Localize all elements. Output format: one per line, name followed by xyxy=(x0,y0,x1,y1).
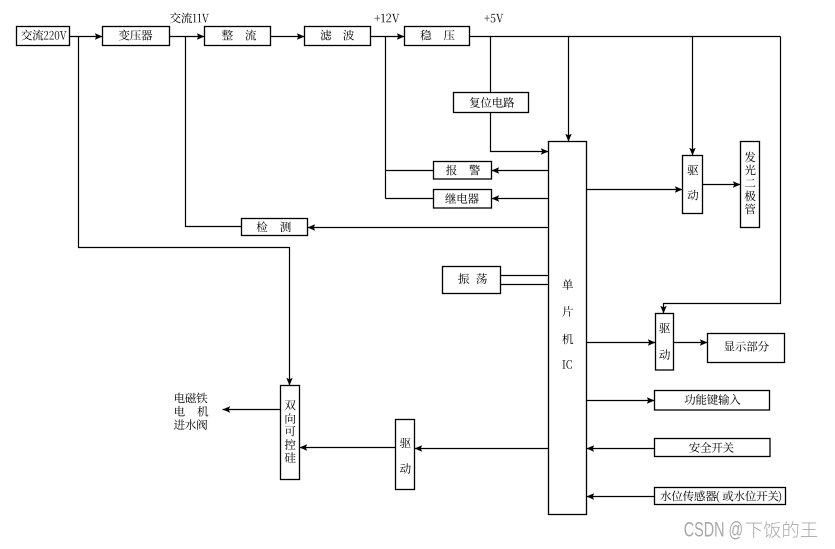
block driver2 驱动 (display) xyxy=(656,314,674,371)
text triac 控 xyxy=(285,439,296,450)
block oscillator 振荡 xyxy=(443,267,501,294)
text driver3 动 xyxy=(400,463,411,474)
wire AC11V branch down to detect xyxy=(186,37,242,227)
text MCU 片 xyxy=(562,306,573,317)
block triac 双向可控硅 xyxy=(281,386,300,480)
wire +5V down to driver1 top xyxy=(692,37,694,156)
text driver3 驱 xyxy=(400,438,411,448)
arrowhead into LED xyxy=(733,181,741,187)
wire driver3 to triac xyxy=(300,447,396,449)
wire rectifier to filter xyxy=(271,36,305,38)
text triac 硅 xyxy=(285,452,296,462)
text 报警 xyxy=(446,165,457,176)
label 电磁铁 xyxy=(175,393,185,403)
block rectifier 整流 xyxy=(205,27,271,46)
arrowhead into rectifier xyxy=(197,33,205,39)
block filter 滤波 xyxy=(305,27,371,46)
text 稳压 xyxy=(420,30,431,41)
text 交流 of AC220V box xyxy=(21,30,32,41)
arrowhead into detect xyxy=(308,224,316,230)
wire oscillator line 2 xyxy=(501,284,549,286)
arrowhead into alarm xyxy=(492,167,500,173)
block driver1 驱动 (top right) xyxy=(683,156,703,214)
wire +5V right edge down to driver2 top xyxy=(664,37,781,314)
wire +5V bus right of regulator xyxy=(470,36,781,38)
text LED 管 xyxy=(745,204,756,215)
arrowhead into display xyxy=(700,339,708,345)
text MCU IC xyxy=(563,360,566,368)
wire MCU to alarm xyxy=(492,170,549,172)
wire +12V to relay left xyxy=(386,198,434,200)
arrowhead into driver3 xyxy=(415,445,423,451)
block alarm 报警 xyxy=(434,162,492,180)
label 11V xyxy=(193,14,197,23)
text MCU 单 xyxy=(562,279,573,290)
text LED 极 xyxy=(745,191,756,202)
block driver3 驱动 (triac) xyxy=(396,420,415,490)
wire triac output to loads xyxy=(223,409,281,411)
wire +5V down to MCU top xyxy=(568,37,570,142)
wire driver1 to LED xyxy=(703,184,741,186)
wire MCU to function keys xyxy=(587,400,655,402)
label 电机 xyxy=(175,406,185,416)
block relay 继电器 xyxy=(434,190,492,209)
block LED 发光二极管 xyxy=(741,142,760,228)
block MCU 单片机IC xyxy=(549,142,587,515)
arrowhead into driver1 left xyxy=(675,186,683,192)
wire AC branch down-right to triac xyxy=(79,37,290,386)
text 显示部分 xyxy=(724,341,735,351)
text right paren xyxy=(778,491,781,503)
label 进水阀 xyxy=(174,419,185,429)
wire driver2 to display xyxy=(674,342,708,344)
block water level sensor 水位传感器(或水位开关) xyxy=(655,488,786,505)
text driver1 动 xyxy=(688,190,699,201)
wire safety switch to MCU xyxy=(587,448,655,450)
label +5V xyxy=(484,15,489,21)
block detect 检测 xyxy=(242,219,308,236)
text LED 发 xyxy=(745,152,756,163)
wire MCU to detect xyxy=(308,227,549,229)
arrowhead into driver2 top xyxy=(660,306,666,314)
text 滤波 xyxy=(321,30,332,41)
arrowhead into driver1 top xyxy=(689,148,695,156)
wire +12V to alarm left xyxy=(386,170,434,172)
wire MCU to driver1 xyxy=(587,189,683,191)
text 安全开关 xyxy=(689,442,700,453)
text driver1 驱动 xyxy=(688,165,699,175)
block regulator 稳压 xyxy=(405,27,470,46)
arrowhead water level into MCU xyxy=(587,493,595,499)
wire MCU to driver3 xyxy=(415,448,549,450)
text 检测 xyxy=(257,221,268,232)
arrowhead into MCU top xyxy=(565,134,571,142)
text LED 二 xyxy=(745,179,755,187)
arrowhead triac output xyxy=(223,406,231,412)
arrowhead safety into MCU xyxy=(587,445,595,451)
label 交流11V xyxy=(170,13,181,24)
text driver2 驱 xyxy=(659,323,670,333)
arrowhead into filter xyxy=(297,33,305,39)
arrowhead into regulator xyxy=(397,33,405,39)
arrowhead reset into MCU xyxy=(541,148,549,154)
wire water level sensor to MCU xyxy=(587,496,655,498)
text 振荡 xyxy=(458,273,469,284)
text 220V of AC220V box xyxy=(44,31,48,40)
wire MCU to relay xyxy=(492,198,549,200)
text 或水位开关 xyxy=(723,491,734,502)
block transformer 变压器 xyxy=(103,27,170,46)
wire +5V down to reset circuit xyxy=(490,37,492,93)
wire filter to regulator xyxy=(371,36,405,38)
svg-text:CSDN @: CSDN @ xyxy=(684,519,744,542)
wire transformer to rectifier xyxy=(170,36,205,38)
wire MCU to driver2 xyxy=(587,342,656,344)
arrowhead into relay xyxy=(492,195,500,201)
text triac 可 xyxy=(285,426,296,436)
text 水位传感器 xyxy=(660,491,671,502)
arrowhead into triac right xyxy=(300,444,308,450)
arrowhead into triac top xyxy=(286,378,292,386)
block display 显示部分 xyxy=(708,334,785,363)
wire +12V branch down xyxy=(385,37,387,199)
arrowhead into transformer xyxy=(95,33,103,39)
arrowhead into driver2 left xyxy=(648,339,656,345)
text driver2 动 xyxy=(659,349,670,360)
text 复位电路 xyxy=(470,97,480,108)
text triac 双 xyxy=(285,400,296,410)
text 变压器 xyxy=(119,30,130,41)
block AC220V input 交流220V xyxy=(17,27,70,46)
watermark 下饭的王 xyxy=(746,523,762,538)
text left paren xyxy=(717,491,720,503)
wire reset circuit to MCU xyxy=(491,113,549,152)
label +12V xyxy=(374,15,380,21)
text LED 光 xyxy=(745,165,756,176)
text MCU 机 xyxy=(562,334,573,345)
text triac 向 xyxy=(286,413,296,424)
block safety switch 安全开关 xyxy=(655,439,771,457)
wire oscillator line 1 xyxy=(501,275,549,277)
block function keys 功能键输入 xyxy=(655,391,770,411)
text 整流 xyxy=(222,30,233,40)
block reset circuit 复位电路 xyxy=(454,93,529,113)
wire AC220V to transformer xyxy=(70,36,103,38)
arrowhead into function keys xyxy=(647,397,655,403)
text 功能键输入 xyxy=(685,394,696,405)
text 继电器 xyxy=(445,193,456,203)
